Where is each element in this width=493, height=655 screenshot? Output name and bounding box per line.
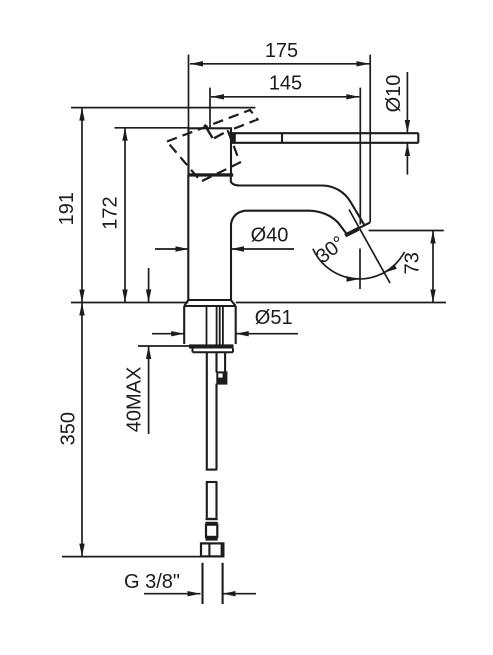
spout top <box>240 186 365 226</box>
thread <box>201 563 203 604</box>
svg-text:Ø51: Ø51 <box>255 307 293 329</box>
deck line right <box>236 302 446 304</box>
bottom ref line <box>62 556 223 558</box>
ext line 145 right <box>359 88 361 225</box>
lever rod <box>231 132 419 134</box>
dim line d10 upper <box>406 72 408 133</box>
svg-text:40MAX: 40MAX <box>124 367 146 433</box>
145 arrows <box>211 94 224 99</box>
body right edge lower with fillet <box>231 211 245 300</box>
hose fitting body <box>206 525 217 537</box>
dim line 145 <box>211 96 359 98</box>
30deg arc arrows <box>347 276 360 281</box>
dim line 350 <box>81 303 83 557</box>
svg-text:145: 145 <box>269 72 302 94</box>
G38 arrows <box>188 591 201 596</box>
svg-text:Ø10: Ø10 <box>383 75 405 113</box>
ext line 175 left <box>188 55 190 129</box>
40MAX ref line <box>138 345 189 347</box>
arrowheads <box>79 61 435 596</box>
supply tube seg1 <box>206 352 208 469</box>
dim 40 left <box>155 248 189 250</box>
73 arrows <box>430 231 435 244</box>
ref line 73 top <box>369 230 444 232</box>
nut right column <box>221 543 224 556</box>
shank right edge <box>224 352 226 372</box>
faucet solid geometry <box>184 128 418 604</box>
dim line 172 <box>124 128 126 303</box>
svg-text:Ø40: Ø40 <box>251 224 289 246</box>
350 arrows <box>79 303 84 316</box>
base flare <box>184 300 236 306</box>
30deg vertical tick <box>359 249 361 290</box>
172 arrows <box>122 128 127 141</box>
d40 arrows <box>176 246 189 251</box>
40MAX arrows <box>146 290 151 303</box>
rod seam <box>231 133 236 144</box>
ext line 175 right <box>369 55 371 222</box>
spout bottom <box>245 211 347 234</box>
dim line 191 <box>81 108 83 303</box>
30deg direction line <box>349 210 390 284</box>
svg-text:30°: 30° <box>312 232 349 268</box>
dim line d10 lower <box>406 143 408 175</box>
dashed open handle <box>167 110 258 182</box>
body left edge <box>187 175 189 300</box>
supply tube seg2 <box>206 481 217 483</box>
ref line 172 top <box>115 127 190 129</box>
svg-text:191: 191 <box>56 192 78 225</box>
dim line 40MAX upper <box>148 268 150 303</box>
175 arrows <box>190 61 203 66</box>
dim line 40MAX lower <box>148 346 150 434</box>
head rect <box>189 128 232 175</box>
body right edge upper <box>231 175 240 186</box>
dim line 73 <box>432 231 434 303</box>
deck line left <box>71 302 188 304</box>
d51 arrows <box>171 331 184 336</box>
flange inner lines <box>207 306 223 346</box>
head bottom seam <box>188 173 233 176</box>
191 arrows <box>79 108 84 121</box>
ref line 191 top <box>71 107 255 109</box>
clamp fill <box>217 378 226 384</box>
clamp detail <box>217 372 226 383</box>
dim 51 left <box>152 333 184 335</box>
fitting bands <box>206 518 218 520</box>
30deg arc <box>313 249 405 279</box>
dim G38 left <box>144 593 201 595</box>
svg-text:172: 172 <box>99 196 121 229</box>
G38 nut <box>201 543 223 556</box>
svg-text:73: 73 <box>401 252 423 274</box>
svg-text:350: 350 <box>58 412 80 445</box>
dim line 175 <box>190 63 370 65</box>
dim G38 right <box>223 593 257 595</box>
filled details <box>188 133 236 557</box>
flange sides <box>183 306 185 344</box>
svg-text:175: 175 <box>265 40 298 62</box>
washer plate <box>189 344 234 348</box>
locknut <box>193 349 234 353</box>
d10 arrows <box>405 120 410 133</box>
dim 51 right <box>236 333 298 335</box>
ext line pivot <box>209 88 211 129</box>
spout mouth <box>345 222 370 235</box>
dim 40 right <box>231 248 294 250</box>
svg-text:G 3/8": G 3/8" <box>124 571 180 593</box>
